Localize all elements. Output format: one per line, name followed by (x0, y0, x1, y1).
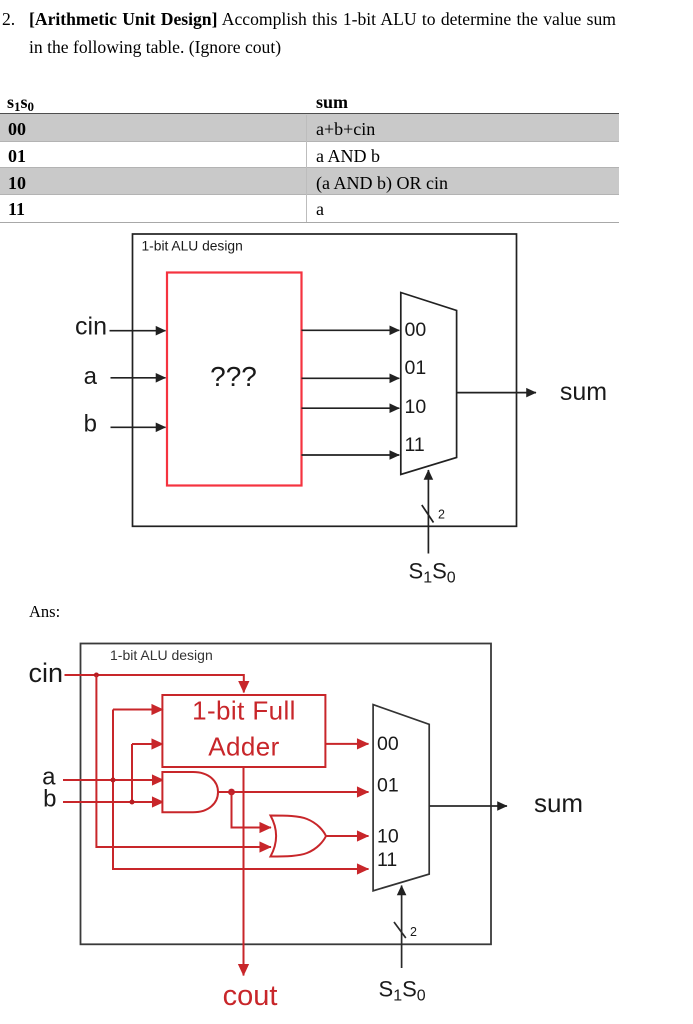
wire cin to full adder carry input (65, 675, 244, 693)
svg-text:a: a (84, 363, 98, 390)
wire cin input (110, 330, 166, 332)
svg-text:cin: cin (28, 658, 63, 688)
svg-text:Adder: Adder (208, 732, 279, 762)
svg-text:???: ??? (210, 361, 257, 392)
full adder U1 (162, 695, 325, 767)
svg-text:1-bit ALU design: 1-bit ALU design (142, 239, 243, 254)
svg-text:sum: sum (560, 378, 607, 406)
wire full adder sum output to mux 00 (325, 743, 368, 745)
wire sum output (457, 392, 536, 394)
wire OR output to mux 10 (326, 835, 369, 837)
wire a input (111, 377, 166, 379)
wire b input (63, 801, 164, 803)
junction cin node (94, 673, 99, 678)
row 00 (0, 114, 619, 142)
row 11 line (0, 222, 619, 223)
svg-text:b: b (43, 786, 56, 813)
svg-text:b: b (84, 411, 97, 438)
wire cout (243, 767, 245, 976)
svg-text:1-bit Full: 1-bit Full (192, 696, 296, 726)
column divider (306, 115, 307, 222)
truth table (0, 91, 619, 93)
multiplexer (401, 293, 457, 475)
AND gate (162, 772, 218, 812)
svg-text:11: 11 (405, 434, 425, 456)
junction b node (130, 800, 135, 805)
wire b input (111, 426, 166, 428)
bus width slash (422, 505, 434, 523)
svg-text:2: 2 (410, 925, 417, 939)
svg-text:10: 10 (405, 396, 427, 418)
svg-text:S1S0: S1S0 (409, 559, 456, 587)
svg-text:cout: cout (223, 980, 278, 1012)
svg-text:cin: cin (75, 313, 107, 341)
wire a input (63, 779, 164, 781)
svg-text:10: 10 (377, 826, 399, 848)
OR gate (271, 816, 327, 857)
row 10 (0, 168, 619, 196)
junction a node (111, 778, 116, 783)
question text (2, 6, 682, 61)
wire AND output branch to OR gate (232, 792, 272, 828)
wire b to full adder input (132, 743, 163, 745)
enclosure box (answer ALU) (81, 644, 492, 945)
wire to mux input 01 (302, 377, 400, 379)
block ??? (unknown logic) (167, 273, 302, 486)
svg-text:00: 00 (405, 319, 427, 341)
svg-text:1-bit ALU design: 1-bit ALU design (110, 647, 213, 663)
junction AND output node (228, 789, 235, 796)
multiplexer (373, 705, 429, 891)
wire cin branch to OR gate (96, 675, 271, 847)
wire b branch vertical (131, 744, 133, 802)
wire to mux input 10 (302, 407, 400, 409)
wire AND output to mux 01 (218, 791, 369, 793)
svg-text:2: 2 (438, 508, 445, 522)
svg-text:01: 01 (405, 357, 427, 379)
enclosure box (1-bit ALU design) (133, 234, 517, 526)
svg-text:sum: sum (534, 788, 583, 818)
svg-text:00: 00 (377, 733, 399, 755)
svg-text:11: 11 (377, 849, 397, 871)
row 01 line (0, 167, 619, 168)
header underline (0, 113, 619, 115)
wire select s1s0 (401, 886, 403, 969)
wire to mux input 11 (302, 454, 400, 456)
wire a to full adder input (113, 709, 163, 711)
svg-text:01: 01 (377, 775, 399, 797)
Ans: label (29, 602, 60, 622)
bus width slash (394, 922, 406, 938)
wire select s1s0 (427, 470, 429, 554)
wire to mux input 00 (302, 329, 400, 331)
wire a branch to mux 11 (113, 710, 369, 870)
svg-text:S1S0: S1S0 (379, 977, 426, 1005)
wire sum output (429, 805, 507, 807)
